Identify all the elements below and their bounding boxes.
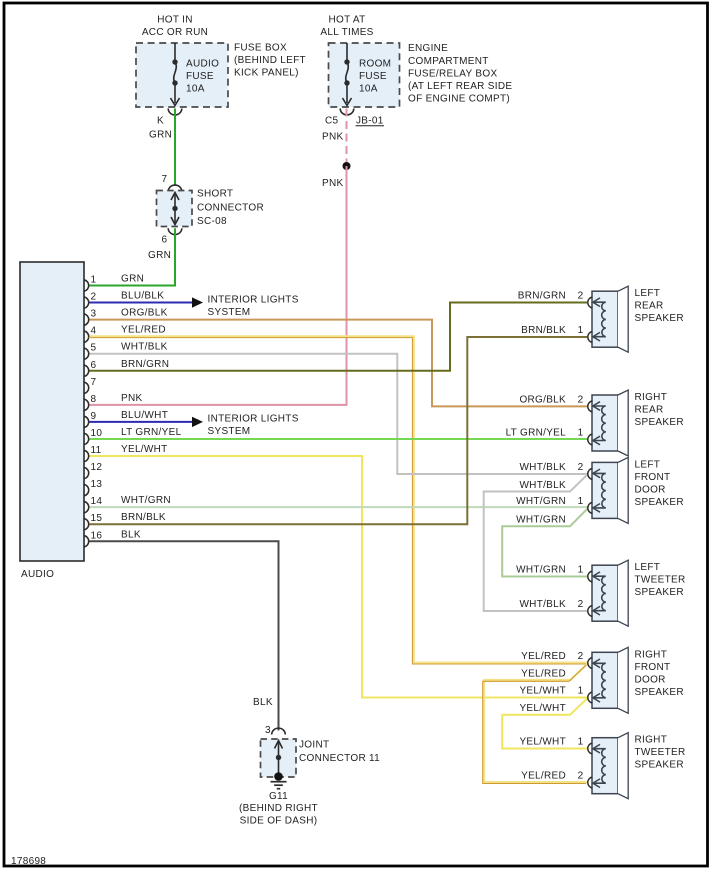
left rear speaker xyxy=(588,286,684,352)
pin 7 of SC-08 xyxy=(162,174,182,192)
audio pin 8 xyxy=(84,393,142,411)
svg-text:SPEAKER: SPEAKER xyxy=(635,417,684,428)
audio pin 4 xyxy=(84,325,166,343)
svg-text:(AT LEFT REAR SIDE: (AT LEFT REAR SIDE xyxy=(408,81,512,92)
svg-text:YEL/RED: YEL/RED xyxy=(121,325,166,336)
svg-text:178698: 178698 xyxy=(11,856,46,867)
svg-text:K: K xyxy=(157,116,164,127)
wire YEL/RED (right front door pin 2 to right tweeter pin 2) xyxy=(484,664,587,783)
svg-text:6: 6 xyxy=(91,360,97,371)
svg-text:LEFT: LEFT xyxy=(635,562,661,573)
svg-text:8: 8 xyxy=(91,394,97,405)
svg-text:DOOR: DOOR xyxy=(635,484,666,495)
svg-text:LEFT: LEFT xyxy=(635,459,661,470)
svg-text:TWEETER: TWEETER xyxy=(635,575,686,586)
svg-text:JOINT: JOINT xyxy=(299,739,329,750)
left tweeter speaker xyxy=(588,560,686,626)
wire BLU/BLK (pin 2) to interior lights system xyxy=(90,297,204,307)
wire YEL/WHT (right front door pin 1 to right tweeter pin 1) xyxy=(502,699,587,749)
wire YEL/RED (pin 4 to right front door speaker pin 2) xyxy=(90,336,587,662)
right rear speaker xyxy=(588,390,684,456)
svg-text:AUDIO: AUDIO xyxy=(186,59,219,70)
svg-text:COMPARTMENT: COMPARTMENT xyxy=(408,56,489,67)
svg-text:KICK PANEL): KICK PANEL) xyxy=(234,68,299,79)
svg-text:RIGHT: RIGHT xyxy=(635,392,668,403)
label interior lights system (top) xyxy=(208,294,299,318)
splice node on PNK xyxy=(343,162,351,170)
svg-text:BRN/BLK: BRN/BLK xyxy=(121,512,166,523)
wire GRN (fuse F1 to short connector) xyxy=(149,109,175,186)
audio pin 11 xyxy=(84,444,168,462)
svg-text:15: 15 xyxy=(91,513,103,524)
svg-text:2: 2 xyxy=(578,651,584,662)
svg-text:YEL/RED: YEL/RED xyxy=(521,771,566,782)
left front door speaker xyxy=(588,457,684,523)
svg-text:WHT/BLK: WHT/BLK xyxy=(519,462,566,473)
pin 3 of joint connector 11 xyxy=(265,725,285,736)
svg-text:7: 7 xyxy=(162,174,168,185)
audio pin 16 xyxy=(84,529,141,547)
svg-text:RIGHT: RIGHT xyxy=(635,649,668,660)
svg-text:FUSE: FUSE xyxy=(186,71,214,82)
wire WHT/GRN (pin 14 to left front door speaker pin 1) xyxy=(90,506,588,508)
svg-text:BLK: BLK xyxy=(253,697,273,708)
svg-text:YEL/WHT: YEL/WHT xyxy=(519,686,566,697)
svg-text:WHT/GRN: WHT/GRN xyxy=(516,496,566,507)
svg-text:SIDE OF DASH): SIDE OF DASH) xyxy=(240,816,318,827)
svg-text:BRN/GRN: BRN/GRN xyxy=(518,291,566,302)
svg-text:SPEAKER: SPEAKER xyxy=(635,687,684,698)
svg-text:REAR: REAR xyxy=(635,405,664,416)
svg-text:BLK: BLK xyxy=(121,529,141,540)
svg-text:SPEAKER: SPEAKER xyxy=(635,587,684,598)
power label HOT IN ACC OR RUN xyxy=(142,15,208,38)
audio pin 6 xyxy=(84,359,169,377)
svg-text:7: 7 xyxy=(91,377,97,388)
audio pin 5 xyxy=(84,342,168,360)
wire WHT/BLK (left front door pin 2 to left tweeter pin 2) xyxy=(484,475,588,611)
audio unit connector block xyxy=(20,262,84,580)
svg-text:3: 3 xyxy=(265,725,271,736)
svg-text:16: 16 xyxy=(91,530,103,541)
wire BRN/BLK (pin 15 to left rear speaker pin 1) xyxy=(90,337,588,524)
svg-text:11: 11 xyxy=(91,445,102,456)
svg-text:1: 1 xyxy=(91,275,97,286)
wire PNK (splice to audio pin 8) xyxy=(90,166,347,405)
svg-text:9: 9 xyxy=(91,411,97,422)
svg-text:ACC OR RUN: ACC OR RUN xyxy=(142,27,208,38)
svg-text:YEL/WHT: YEL/WHT xyxy=(519,737,566,748)
svg-text:10A: 10A xyxy=(359,84,378,95)
svg-text:FRONT: FRONT xyxy=(635,472,671,483)
svg-text:YEL/WHT: YEL/WHT xyxy=(121,444,168,455)
svg-text:1: 1 xyxy=(578,428,584,439)
svg-text:ENGINE: ENGINE xyxy=(408,43,448,54)
svg-text:OF ENGINE COMPT): OF ENGINE COMPT) xyxy=(408,94,510,105)
audio pin 9 xyxy=(84,410,168,428)
svg-text:SYSTEM: SYSTEM xyxy=(208,307,251,318)
wire PNK dashed segment xyxy=(322,109,347,163)
wire ORG/BLK (pin 3 to right rear speaker pin 2) xyxy=(90,320,588,407)
svg-text:INTERIOR LIGHTS: INTERIOR LIGHTS xyxy=(208,414,299,425)
svg-text:2: 2 xyxy=(578,394,584,405)
svg-text:ORG/BLK: ORG/BLK xyxy=(519,394,566,405)
svg-text:FUSE: FUSE xyxy=(359,71,387,82)
svg-text:SPEAKER: SPEAKER xyxy=(635,313,684,324)
svg-text:WHT/BLK: WHT/BLK xyxy=(121,342,168,353)
svg-text:SPEAKER: SPEAKER xyxy=(635,497,684,508)
svg-text:BLU/WHT: BLU/WHT xyxy=(121,410,168,421)
svg-text:(BEHIND RIGHT: (BEHIND RIGHT xyxy=(239,803,318,814)
svg-text:RIGHT: RIGHT xyxy=(635,735,668,746)
svg-text:SPEAKER: SPEAKER xyxy=(635,760,684,771)
relay box location label xyxy=(408,43,512,104)
svg-text:ORG/BLK: ORG/BLK xyxy=(121,308,168,319)
wire WHT/BLK (pin 5 to left front door speaker pin 2) xyxy=(90,354,588,474)
svg-text:BLU/BLK: BLU/BLK xyxy=(121,291,164,302)
svg-text:2: 2 xyxy=(578,462,584,473)
svg-text:LT GRN/YEL: LT GRN/YEL xyxy=(121,427,182,438)
wire BRN/GRN (pin 6 to left rear speaker pin 2) xyxy=(90,303,588,371)
svg-text:LT GRN/YEL: LT GRN/YEL xyxy=(506,428,567,439)
svg-text:SYSTEM: SYSTEM xyxy=(208,426,251,437)
svg-text:PNK: PNK xyxy=(121,393,142,404)
audio pin 14 xyxy=(84,495,171,513)
svg-text:WHT/GRN: WHT/GRN xyxy=(516,565,566,576)
svg-text:FUSE BOX: FUSE BOX xyxy=(234,42,287,53)
svg-text:FUSE/RELAY BOX: FUSE/RELAY BOX xyxy=(408,68,497,79)
audio pin 2 xyxy=(84,291,164,309)
svg-text:ROOM: ROOM xyxy=(359,59,391,70)
svg-text:10A: 10A xyxy=(186,84,205,95)
svg-text:1: 1 xyxy=(578,737,584,748)
svg-text:(BEHIND LEFT: (BEHIND LEFT xyxy=(234,55,306,66)
joint connector 11 xyxy=(261,739,381,777)
svg-text:4: 4 xyxy=(91,326,97,337)
svg-text:3: 3 xyxy=(91,309,97,320)
svg-text:PNK: PNK xyxy=(322,178,343,189)
svg-text:1: 1 xyxy=(578,686,584,697)
fuse box F1: AUDIO FUSE 10A xyxy=(136,43,228,107)
svg-text:2: 2 xyxy=(91,292,97,303)
svg-text:ALL TIMES: ALL TIMES xyxy=(320,27,373,38)
connector terminal K xyxy=(157,109,182,127)
audio pin 1 xyxy=(84,274,144,292)
svg-text:FRONT: FRONT xyxy=(635,662,671,673)
svg-text:GRN: GRN xyxy=(121,274,144,285)
svg-text:G11: G11 xyxy=(269,791,288,802)
svg-text:12: 12 xyxy=(91,462,103,473)
ground G11 xyxy=(239,772,318,826)
wire colour labels (speaker side) xyxy=(506,291,584,782)
connector terminal C5 JB-01 xyxy=(325,109,384,127)
svg-text:WHT/BLK: WHT/BLK xyxy=(519,599,566,610)
pin 6 of SC-08 xyxy=(162,228,182,245)
svg-text:WHT/BLK: WHT/BLK xyxy=(519,480,566,491)
svg-text:SC-08: SC-08 xyxy=(197,216,227,227)
svg-text:14: 14 xyxy=(91,496,103,507)
svg-text:AUDIO: AUDIO xyxy=(21,569,54,580)
wire GRN (SC-08 to audio pin 1) xyxy=(90,228,176,285)
wire LT GRN/YEL (pin 10 to right rear speaker pin 1) xyxy=(90,438,588,440)
svg-text:BRN/BLK: BRN/BLK xyxy=(521,325,566,336)
svg-text:TWEETER: TWEETER xyxy=(635,747,686,758)
svg-text:6: 6 xyxy=(162,235,168,246)
svg-text:YEL/RED: YEL/RED xyxy=(521,668,566,679)
svg-text:JB-01: JB-01 xyxy=(356,116,384,127)
svg-text:1: 1 xyxy=(578,565,584,576)
svg-text:1: 1 xyxy=(578,496,584,507)
svg-text:2: 2 xyxy=(578,291,584,302)
svg-text:10: 10 xyxy=(91,428,103,439)
power label HOT AT ALL TIMES xyxy=(320,15,373,38)
wire BLU/WHT (pin 9) to interior lights system xyxy=(90,417,204,427)
svg-text:WHT/GRN: WHT/GRN xyxy=(516,514,566,525)
svg-text:DOOR: DOOR xyxy=(635,674,666,685)
audio pin 15 xyxy=(84,512,166,530)
wire YEL/WHT (pin 11 to right front door speaker pin 1) xyxy=(90,456,588,698)
svg-text:CONNECTOR: CONNECTOR xyxy=(197,202,264,213)
svg-text:WHT/GRN: WHT/GRN xyxy=(121,495,171,506)
svg-text:REAR: REAR xyxy=(635,301,664,312)
svg-text:2: 2 xyxy=(578,599,584,610)
svg-text:5: 5 xyxy=(91,343,97,354)
svg-text:YEL/RED: YEL/RED xyxy=(521,651,566,662)
svg-text:SHORT: SHORT xyxy=(197,189,233,200)
audio pin 10 xyxy=(84,427,182,445)
audio pin 7 xyxy=(84,377,97,394)
fuse box F2: ROOM FUSE 10A xyxy=(329,43,400,107)
wire WHT/GRN (left front door pin 1 to left tweeter pin 1) xyxy=(502,509,587,577)
right front door speaker xyxy=(588,647,684,713)
svg-text:2: 2 xyxy=(578,771,584,782)
svg-text:1: 1 xyxy=(578,325,584,336)
short connector SC-08 xyxy=(157,189,264,227)
svg-text:HOT IN: HOT IN xyxy=(157,15,193,26)
svg-text:INTERIOR LIGHTS: INTERIOR LIGHTS xyxy=(208,294,299,305)
label interior lights system (bottom) xyxy=(208,414,299,438)
svg-text:HOT AT: HOT AT xyxy=(329,15,366,26)
svg-text:GRN: GRN xyxy=(149,130,172,141)
svg-text:PNK: PNK xyxy=(322,132,343,143)
fuse box location label xyxy=(234,42,306,78)
svg-text:C5: C5 xyxy=(325,116,339,127)
svg-text:LEFT: LEFT xyxy=(635,288,661,299)
svg-text:CONNECTOR 11: CONNECTOR 11 xyxy=(299,753,380,764)
right tweeter speaker xyxy=(588,733,686,799)
svg-text:13: 13 xyxy=(91,479,103,490)
svg-text:YEL/WHT: YEL/WHT xyxy=(519,703,566,714)
audio pin 13 xyxy=(84,479,102,496)
audio pin 12 xyxy=(84,462,102,479)
svg-text:GRN: GRN xyxy=(148,250,171,261)
svg-text:BRN/GRN: BRN/GRN xyxy=(121,359,169,370)
audio pin 3 xyxy=(84,308,168,326)
wire BLK (pin 16 to joint connector 11) xyxy=(90,541,279,730)
